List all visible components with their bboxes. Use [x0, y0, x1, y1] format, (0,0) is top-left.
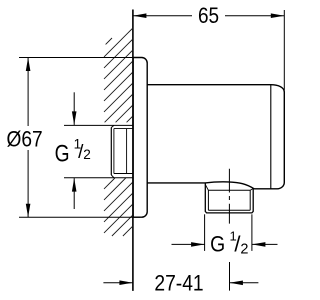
inlet G1/2 dimension top arrow — [73, 92, 75, 125]
outlet G1/2 extension line right — [251, 214, 253, 251]
dimension 65 text — [198, 5, 219, 28]
dimension Ø67 extension line bottom — [19, 216, 140, 218]
dimension Ø67 text — [7, 127, 43, 152]
outlet G1/2 left arrow — [172, 243, 205, 245]
inlet thread nipple into wall — [64, 125, 133, 177]
outlet G1/2 text — [210, 233, 225, 257]
svg-text:G: G — [55, 139, 70, 167]
outlet centerline — [228, 169, 230, 224]
dimension 65 line — [133, 15, 284, 17]
svg-text:65: 65 — [198, 5, 219, 28]
body dome tangent line — [270, 85, 272, 189]
wall line — [132, 10, 134, 291]
body outline — [147, 85, 284, 189]
inlet G1/2 text — [55, 139, 70, 167]
dimension 27-41 right line and arrowhead — [229, 282, 258, 284]
svg-text:27-41: 27-41 — [154, 271, 203, 296]
outlet centerline lower segment — [229, 262, 231, 291]
dimension Ø67 top arrowhead — [26, 58, 31, 72]
dimension 65 right arrowhead — [271, 13, 285, 18]
svg-text:2: 2 — [83, 147, 91, 162]
outlet nipple — [205, 183, 253, 213]
svg-text:G: G — [210, 233, 225, 257]
dimension Ø67 bottom arrowhead — [26, 204, 31, 218]
wall hatching top — [104, 28, 133, 122]
escutcheon flange — [133, 58, 147, 218]
dimension 27-41 text — [154, 271, 203, 296]
dimension 27-41 left line and arrowhead — [103, 282, 132, 284]
dimension Ø67 line — [27, 58, 29, 218]
outlet G1/2 right arrow — [252, 243, 278, 245]
svg-text:2: 2 — [240, 242, 248, 258]
dimension 65 extension line right — [283, 10, 285, 90]
wall hatching bottom — [104, 178, 133, 236]
svg-text:Ø67: Ø67 — [7, 127, 43, 152]
dimension Ø67 extension line top — [19, 57, 140, 59]
dimension 65 left arrowhead — [133, 13, 147, 18]
outlet G1/2 extension line left — [204, 214, 206, 251]
inlet G1/2 dimension bottom arrow — [73, 178, 75, 209]
